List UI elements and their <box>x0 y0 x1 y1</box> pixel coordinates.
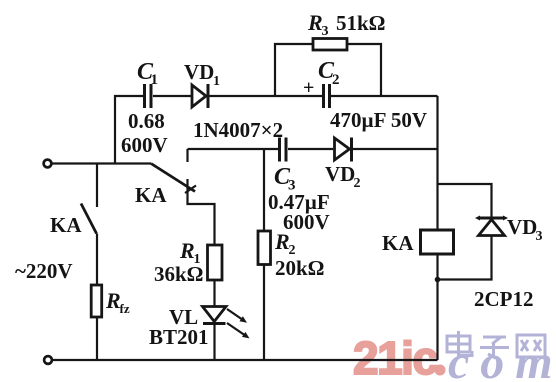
wire: R3 branch left vertical <box>275 44 313 96</box>
capacitor C2 plates <box>324 84 330 108</box>
LED arrow 2 <box>227 323 250 338</box>
svg-text:KA: KA <box>50 213 82 237</box>
svg-text:KA: KA <box>382 231 414 255</box>
svg-text:VD: VD <box>507 215 537 239</box>
wire: VD1 to C2 (top bus) <box>208 95 322 97</box>
svg-text:R: R <box>179 238 195 263</box>
junction dot <box>435 277 441 283</box>
svg-text:1: 1 <box>151 72 159 88</box>
resistor Rfz <box>91 285 102 317</box>
wire: R1 to LED VL <box>213 280 215 306</box>
svg-text:0.68: 0.68 <box>128 109 165 133</box>
wire: upper-left terminal to switch blade pivot <box>53 162 152 164</box>
diode VD3 cathode bar <box>475 216 508 221</box>
svg-text:VD: VD <box>325 162 355 186</box>
capacitor C1 plates <box>145 84 152 108</box>
svg-text:VD: VD <box>184 60 214 84</box>
label VD1 <box>184 60 220 89</box>
svg-text:600V: 600V <box>283 210 330 234</box>
watermark char 电 <box>447 331 472 356</box>
LED arrow 1 <box>227 309 247 323</box>
wire: bottom bus <box>53 359 438 361</box>
LED VL cathode bar <box>203 322 226 325</box>
svg-text:51kΩ: 51kΩ <box>336 11 386 35</box>
svg-text:2: 2 <box>332 72 340 88</box>
svg-text:KA: KA <box>135 183 167 207</box>
wire: Rfz to bottom bus <box>96 317 98 360</box>
svg-text:1N4007×2: 1N4007×2 <box>193 118 283 142</box>
svg-text:fz: fz <box>120 301 130 316</box>
svg-text:R: R <box>105 288 121 313</box>
wire: VD2 to right rail <box>352 148 438 150</box>
svg-text:R: R <box>274 229 290 254</box>
svg-text:~220V: ~220V <box>15 259 73 283</box>
wire: VD3 branch top <box>438 184 492 217</box>
wire: VD3 return to rail <box>438 236 492 280</box>
terminal lower-left <box>44 356 52 364</box>
svg-text:1: 1 <box>213 74 220 89</box>
label C2 <box>318 58 340 88</box>
label VD3 <box>507 215 543 244</box>
wire: R2 branch vertical top <box>263 149 265 231</box>
label R1 <box>179 238 201 267</box>
wire: R2 to bottom bus <box>263 265 265 361</box>
capacitor C3 plates <box>280 138 287 162</box>
svg-text:3: 3 <box>536 229 543 244</box>
svg-text:2: 2 <box>354 176 361 191</box>
wire: right rail upper <box>436 96 438 230</box>
label Rfz <box>105 288 130 316</box>
svg-text:20kΩ: 20kΩ <box>275 256 325 280</box>
svg-text:2CP12: 2CP12 <box>474 287 534 311</box>
label C3 <box>274 164 296 194</box>
svg-text:36kΩ: 36kΩ <box>154 262 204 286</box>
wire: right rail lower <box>436 254 438 360</box>
switch KA (relay contact, middle) <box>151 149 196 193</box>
watermark 21ic.com logo <box>353 332 556 382</box>
svg-text:R: R <box>307 10 323 35</box>
LED VL triangle <box>203 307 227 322</box>
label C1 <box>137 59 158 88</box>
wire: C1 to VD1 <box>153 95 191 97</box>
wire: LED to bottom bus <box>213 324 215 361</box>
wire: C3/VD2 line, left segment <box>188 148 279 150</box>
svg-text:600V: 600V <box>121 133 168 157</box>
wire: C3 to VD2 <box>288 148 333 150</box>
resistor R3 <box>313 39 347 51</box>
label VD2 <box>325 162 361 191</box>
terminal upper-left <box>44 160 52 168</box>
diode VD2 <box>335 138 352 162</box>
label R2 <box>274 229 296 258</box>
svg-text:3: 3 <box>322 24 329 39</box>
switch KA (line contact, left) <box>81 164 97 286</box>
wire: vertical riser x=115 up to top bus <box>115 96 143 164</box>
svg-text:+: + <box>303 77 314 99</box>
diode VD1 <box>192 84 208 108</box>
relay coil KA <box>421 230 454 254</box>
svg-text:21ic: 21ic <box>353 332 437 382</box>
label R3 51kOhm <box>307 10 386 39</box>
watermark char 网 <box>517 335 545 357</box>
wire: middle switch to R1 top <box>188 179 215 245</box>
diode VD3 triangle <box>479 220 505 236</box>
watermark char 子 <box>480 337 509 357</box>
svg-text:470µF 50V: 470µF 50V <box>330 108 427 132</box>
wire: C2 to right rail (top bus) <box>331 95 438 97</box>
resistor R2 <box>258 231 271 265</box>
wire: R3 branch right vertical <box>347 44 381 96</box>
resistor R1 <box>208 245 223 280</box>
svg-text:BT201: BT201 <box>149 325 209 349</box>
